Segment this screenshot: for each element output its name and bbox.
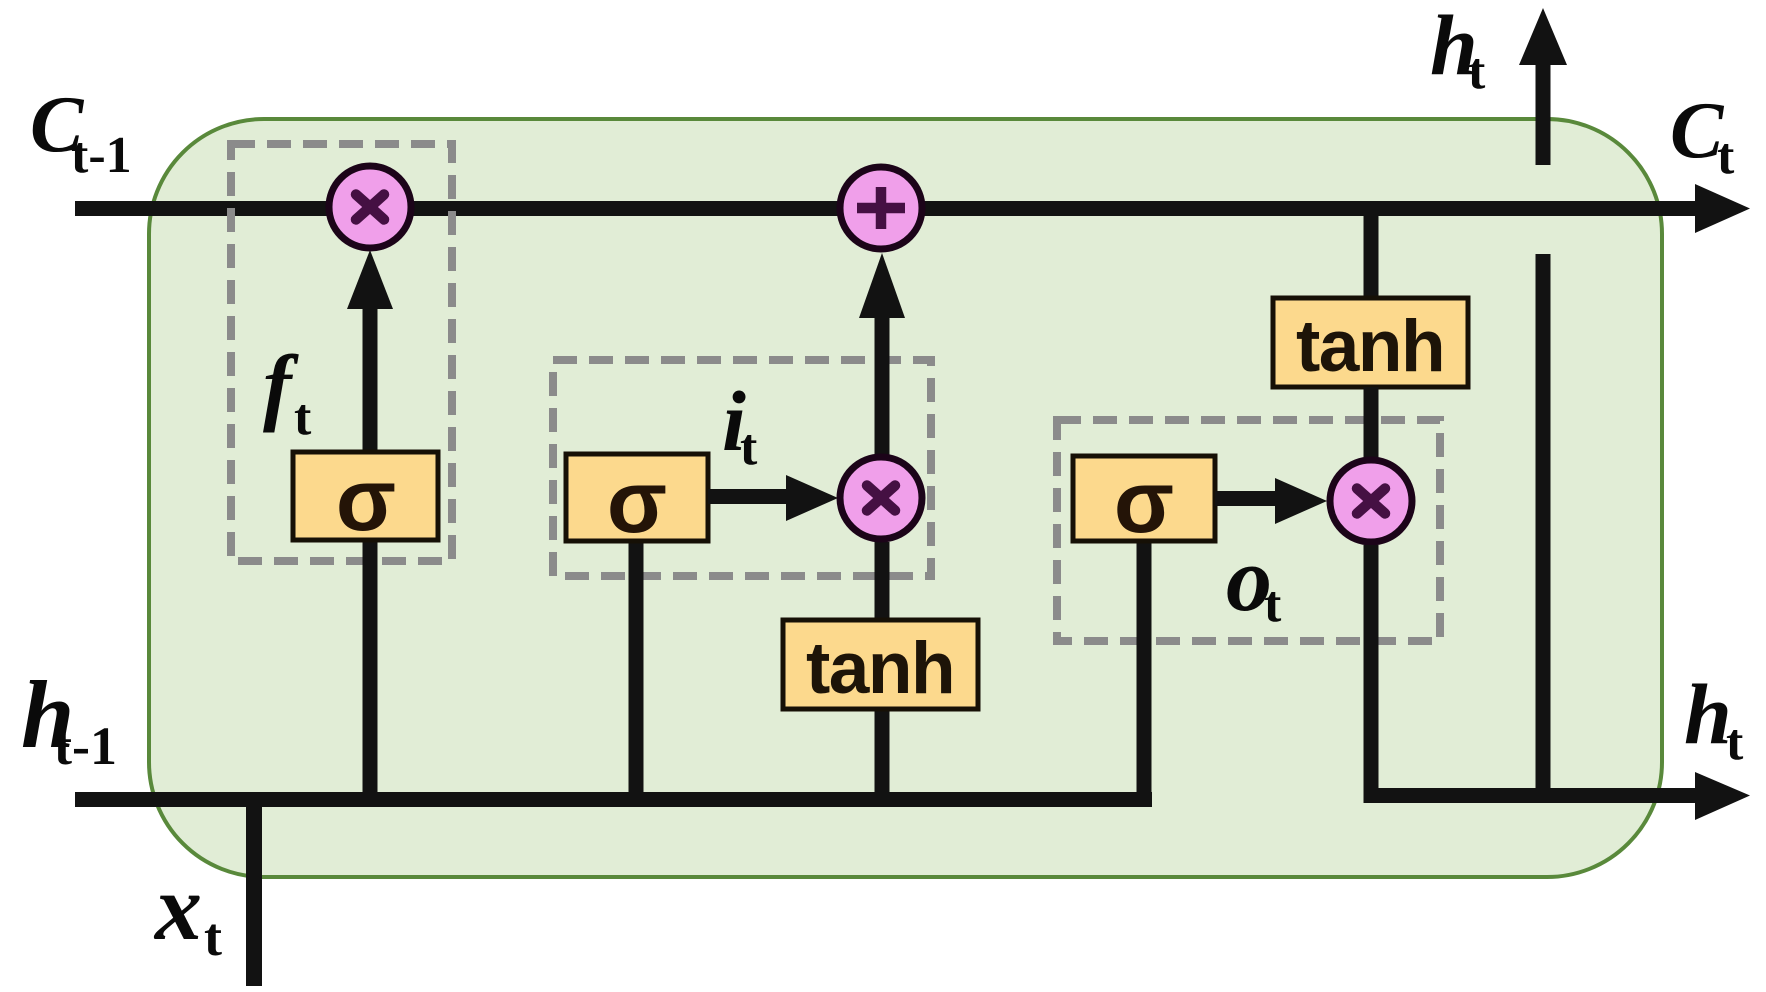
wire: h_t branch vertical <box>1536 254 1551 803</box>
wire: output sigma input <box>1137 541 1152 801</box>
dashed box output gate <box>1057 420 1440 641</box>
svg-text:t-1: t-1 <box>71 127 132 184</box>
sigma box input gate <box>566 454 708 541</box>
arrowhead h_t top <box>1519 8 1567 65</box>
dashed box input gate <box>553 360 931 576</box>
svg-text:σ: σ <box>336 450 396 549</box>
times circle output gate <box>1330 460 1412 542</box>
wire: output sigma to times-circle arrow <box>1215 491 1285 506</box>
svg-text:x: x <box>153 856 202 960</box>
svg-text:σ: σ <box>607 452 667 551</box>
arrowhead C_t <box>1695 184 1750 233</box>
wire: times circle to plus circle arrow <box>875 310 890 458</box>
wire: h_t bottom output horizontal <box>1364 788 1701 803</box>
svg-text:tanh: tanh <box>1296 306 1444 387</box>
svg-text:h: h <box>1684 666 1732 762</box>
tanh box candidate <box>783 620 978 709</box>
sigma box output gate <box>1073 456 1215 541</box>
wire: tanh to output times circle <box>1364 387 1379 460</box>
svg-text:tanh: tanh <box>806 628 954 709</box>
dashed box forget gate <box>231 144 452 561</box>
svg-text:σ: σ <box>1114 452 1174 551</box>
times circle forget gate <box>329 166 411 248</box>
wire: h_(t-1) bottom horizontal <box>75 792 1152 807</box>
wire: input sigma to times-circle arrow <box>708 489 793 504</box>
LSTM cell body (rounded green rect) <box>149 119 1662 877</box>
wire: forget sigma to times-circle arrow <box>363 300 378 455</box>
tanh box output <box>1273 298 1468 387</box>
svg-text:t: t <box>1264 576 1282 633</box>
wire: h_t up arrow shaft <box>1536 59 1551 165</box>
wire: right column C line to tanh <box>1364 208 1379 298</box>
svg-text:t: t <box>1468 43 1486 100</box>
wire: input sigma input <box>629 540 644 801</box>
plus circle <box>840 167 922 249</box>
svg-text:t: t <box>294 389 312 446</box>
wire: output times circle down <box>1364 545 1379 803</box>
svg-text:t: t <box>1726 714 1744 771</box>
wire: cell state line C (top horizontal) <box>75 201 1700 216</box>
wire: forget sigma input <box>363 540 378 801</box>
times circle input gate <box>840 457 922 539</box>
svg-text:t: t <box>204 907 222 967</box>
sigma box forget gate <box>293 452 438 540</box>
wire: candidate vertical (h line to tanh) <box>875 709 890 801</box>
wire: x_t input vertical <box>246 800 262 986</box>
arrowhead h_t bottom <box>1695 772 1750 820</box>
svg-text:t: t <box>1717 128 1735 185</box>
svg-text:t: t <box>740 419 758 476</box>
wire: tanh to times circle <box>875 542 890 622</box>
svg-text:t-1: t-1 <box>54 716 117 776</box>
